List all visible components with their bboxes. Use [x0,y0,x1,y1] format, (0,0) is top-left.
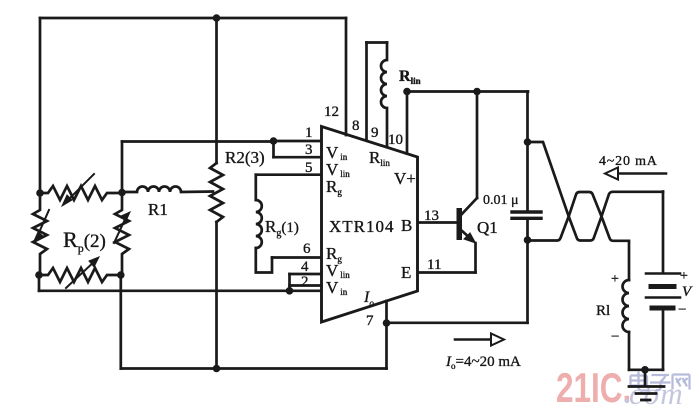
svg-text:11: 11 [427,257,441,273]
svg-text:13: 13 [424,208,439,224]
junction V+ node at pin10 [403,88,411,96]
wire battery branch down from top line [662,192,665,273]
wire bridge bottom-left down to Vin- line [38,275,41,291]
svg-text:Rg(1): Rg(1) [265,217,299,239]
svg-text:8: 8 [352,118,360,134]
inductor RL coil [623,280,630,332]
battery V plates [646,272,680,275]
watermark hanzi zi [650,375,671,390]
wire capacitor bottom lead [526,220,529,240]
svg-text:V+: V+ [394,169,416,188]
wire base from pin 13 [418,221,457,224]
svg-text:3: 3 [305,142,313,158]
junction ground connection [641,366,649,374]
svg-text:−: − [678,302,686,318]
svg-text:Vin: Vin [326,278,348,297]
arrow 4-20mA (left pointing, top right) [614,172,666,175]
wire capacitor branch down [526,92,529,143]
twisted pair wire B (bottom-left to bottom-right) [528,192,630,241]
junction capacitor top / twisted pair [524,138,532,146]
svg-text:1: 1 [305,125,313,141]
svg-text:7: 7 [366,313,374,329]
wire RL branch down [628,243,631,281]
svg-text:6: 6 [303,241,311,257]
wire pin 7 stub [385,301,388,323]
wire bottom rail [121,367,387,370]
wire Vin- line to IC [39,289,320,292]
arrow Io (right pointing, bottom) [455,338,493,341]
wire bottom return [629,368,663,371]
svg-text:9: 9 [371,125,379,141]
junction bridge bottom-left [35,271,43,279]
resistor R2(3) vertical zigzag [210,163,223,222]
wire pin 3 [274,156,321,159]
wire pin7 to capacitor-bottom line [387,321,528,324]
wire bridge bottom-right down to bottom rail [119,275,122,369]
junction collector branch [473,88,481,96]
watermark dot before com [625,399,629,403]
wire pin7 riser from bottom rail [385,323,388,369]
svg-text:12: 12 [324,104,339,120]
wire capacitor bottom node down [526,240,529,323]
svg-text:4~20 mA: 4~20 mA [599,154,658,169]
svg-text:B: B [401,216,412,235]
ground symbol bars [629,385,664,388]
svg-text:R2(3): R2(3) [225,148,265,167]
resistor Rlin coil (external) [381,43,387,148]
resistor bridge Rp(2) top arm zigzag [40,186,122,200]
watermark hanzi dian [631,372,649,391]
wire RL bottom lead [628,332,631,370]
junction bottom rail / R2 branch [213,365,221,373]
op-amp U1 XTR104 trapezoid body [322,127,418,323]
svg-text:21IC.: 21IC. [556,364,631,412]
wire pin-12 drop from top rail to IC [345,18,348,135]
capacitor C1 0.01u plates [512,210,541,213]
wire corner down to bridge top-right [121,142,124,193]
wire pin 10 up to V+ node [406,92,409,154]
svg-text:Rp(2): Rp(2) [63,227,106,255]
wire emitter down [474,243,477,273]
junction pin2 on Vin- line [286,287,294,295]
junction bridge top-left [36,189,44,197]
svg-text:2: 2 [301,274,309,290]
wire node-B horizontal to pins 1/3 [122,140,274,143]
transistor Q1 base bar [457,208,463,240]
wire top supply rail [40,17,346,20]
resistor bridge left arm zigzag [33,193,47,275]
wire pin1-pin3 tie [272,141,275,157]
wire capacitor top lead [526,142,529,211]
junction top rail [213,14,221,22]
svg-text:Rg: Rg [326,177,342,197]
wire collector drop [476,92,479,199]
svg-text:Rlin: Rlin [369,148,390,168]
twisted pair wire A (top-left to top-right) [528,142,664,241]
wire pin 5 [256,173,321,176]
transistor Q1 emitter arrowhead [464,233,476,243]
svg-text:Q1: Q1 [477,218,498,237]
wire battery bottom lead [662,311,665,370]
svg-text:R1: R1 [148,200,168,219]
svg-text:+: + [611,272,619,287]
svg-text:0.01 μ: 0.01 μ [483,193,519,208]
arrow on right arm [114,215,127,243]
wire pin 8 up [365,43,368,141]
svg-text:5: 5 [305,160,313,176]
svg-text:10: 10 [388,132,403,148]
wire emitter to pin 11 [418,271,476,274]
svg-text:4: 4 [301,259,309,275]
wire Rlin loop top [367,41,388,44]
resistor bridge right arm zigzag [115,193,129,275]
junction bridge top-right node B [118,189,126,197]
junction pin 7 [383,319,391,327]
wire pin 6 [272,256,321,259]
wire Rg1 bottom to pin6 step [256,248,272,273]
svg-text:Rl: Rl [596,303,610,319]
wire pin 4 [290,273,321,276]
junction capacitor bottom / twisted pair [524,236,532,244]
svg-text:XTR104: XTR104 [329,217,395,236]
svg-text:−: − [611,329,619,345]
wire pin4/pin2 drop to Vin- line [288,274,291,291]
wire pin 2 [290,284,321,287]
transistor Q1 collector diagonal [461,198,477,215]
wire V+ top line pin10 to capacitor branch [407,90,528,93]
svg-text:Rlin: Rlin [399,68,421,86]
svg-text:+: + [680,269,688,284]
wire center vertical upper (top rail to R2 top) [215,18,218,163]
arrow on left arm [37,210,49,237]
wire pin5 corner down [254,175,257,200]
watermark hanzi wang [673,375,690,390]
arrow on bottom arm [66,260,96,288]
ground stub [644,370,647,386]
wire pin 1 [274,140,321,143]
transistor Q1 emitter diagonal [461,230,471,239]
inductor Rg(1) coil [256,200,262,248]
wire left vertical from top rail to bridge top-left [39,18,42,193]
wire center vertical lower (R2 bottom to bottom rail) [215,222,218,369]
arrow on top arm [64,174,94,204]
svg-text:V: V [682,284,693,300]
svg-text:Io: Io [363,289,374,308]
junction bridge bottom-right [117,271,125,279]
resistor bridge bottom arm zigzag [39,268,121,282]
inductor R1 coil on node-B line [122,187,213,193]
junction pins 1/3 tie [270,137,278,145]
svg-text:Io=4~20 mA: Io=4~20 mA [445,354,521,371]
svg-text:E: E [401,263,411,282]
